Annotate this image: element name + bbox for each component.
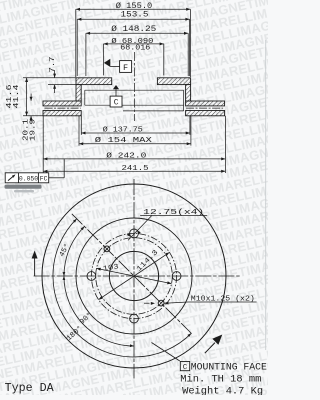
dimension Ø137.75 bbox=[80, 116, 82, 135]
section: left rim friction band (hatched plates + vent) bbox=[43, 101, 81, 106]
datum F flag on bore extension line bbox=[104, 59, 110, 67]
dimension Ø242.0 bbox=[42, 116, 44, 173]
leader from mounting face note bbox=[152, 343, 180, 362]
front view: bolt PCD circle Ø114.3 (dashed) bbox=[91, 233, 176, 318]
section: left hat cone wall bbox=[76, 85, 81, 101]
svg-text:F: F bbox=[123, 63, 128, 73]
front view: 45 degree diagonal centreline bbox=[72, 214, 192, 334]
faint page edge line right bbox=[265, 40, 267, 350]
front view: hat circle Ø155 bbox=[76, 218, 192, 334]
dimension 7.7 hat plate thickness bbox=[23, 77, 76, 79]
svg-text:C: C bbox=[183, 364, 188, 372]
svg-text:68.016: 68.016 bbox=[120, 45, 150, 53]
svg-text:Ø 154 MAX: Ø 154 MAX bbox=[95, 136, 153, 145]
dimension leader M10x1.25 (x2) bbox=[188, 301, 257, 303]
svg-text:Type DA: Type DA bbox=[5, 382, 54, 395]
front view: M10x1.25 service hole #2 bbox=[158, 300, 164, 306]
svg-text:C: C bbox=[114, 99, 119, 108]
svg-text:Weight 4.7 Kg: Weight 4.7 Kg bbox=[182, 386, 263, 395]
dimension 41.6/41.4 overall height bbox=[23, 115, 43, 117]
dimension 114.3 PCD line bbox=[99, 252, 170, 299]
svg-text:153.5: 153.5 bbox=[121, 10, 149, 19]
front view: wheel bolt hole Ø12.75 #1 bbox=[130, 229, 139, 238]
section: hat plate right half (hatched) bbox=[157, 78, 190, 85]
section: right rim friction band (hatched plates + vent) bbox=[186, 101, 225, 106]
dimension 153.5 bbox=[76, 19, 78, 76]
feature control frame total runout 0.050 FC bbox=[49, 177, 64, 179]
svg-text:19.9: 19.9 bbox=[29, 119, 37, 141]
front view: vertical centreline bbox=[133, 179, 135, 379]
front view: horizontal centreline bbox=[34, 275, 241, 277]
section: left vent centerline bbox=[45, 107, 81, 109]
dimension Ø68.090/68.016 bore bbox=[103, 44, 105, 76]
front view: wheel bolt hole Ø12.75 #3 bbox=[172, 272, 181, 281]
note: boxed C MOUNTING FACE bbox=[180, 362, 189, 371]
dimension Ø154 MAX bbox=[78, 116, 80, 146]
svg-text:241.5: 241.5 bbox=[122, 165, 149, 173]
dimension Ø 148.25 bbox=[85, 33, 87, 76]
svg-text:Ø 242.0: Ø 242.0 bbox=[106, 152, 146, 161]
datum C flag on mounting face bbox=[113, 85, 119, 89]
svg-text:41.4: 41.4 bbox=[13, 84, 21, 109]
dimension 20.1/19.9 rim thickness bbox=[30, 94, 32, 101]
angular dimension arc 180 degrees (r=81) bbox=[53, 219, 191, 357]
front view: outer circle Ø242 bbox=[42, 184, 226, 368]
front view: centre bore Ø68 bbox=[109, 251, 158, 300]
section: centre axis line bbox=[134, 52, 136, 121]
svg-text:Ø 137.75: Ø 137.75 bbox=[103, 125, 143, 134]
dimension leader 12.75(x4) bolt holes bbox=[140, 215, 207, 217]
front view: M10 PCD circle Ø103 (dashed) bbox=[96, 238, 173, 315]
svg-text:0.050: 0.050 bbox=[19, 175, 38, 182]
svg-text:MOUNTING FACE: MOUNTING FACE bbox=[191, 362, 267, 373]
section: right hat cone wall bbox=[186, 85, 191, 101]
svg-text:12.75(x4): 12.75(x4) bbox=[143, 209, 204, 217]
section: hat plate left half (hatched) bbox=[76, 78, 112, 85]
front view: wheel bolt hole Ø12.75 #4 bbox=[130, 314, 139, 323]
section: phantom hub outline under hat bbox=[85, 89, 184, 91]
rotation arrow (bottom right, large) bbox=[205, 343, 215, 354]
front view: wheel bolt hole Ø12.75 #2 bbox=[87, 272, 96, 281]
svg-text:7.7: 7.7 bbox=[49, 57, 57, 73]
rotation arrow (left) bbox=[34, 258, 36, 277]
dimension Ø155.0 bbox=[75, 9, 77, 77]
angular dimension arc 45/90 degrees (r=70) bbox=[64, 227, 134, 347]
svg-text:FC: FC bbox=[40, 175, 48, 182]
dimension 103 PCD line bbox=[97, 268, 172, 283]
section: right vent centerline bbox=[186, 107, 223, 109]
svg-text:Min. TH 18 mm: Min. TH 18 mm bbox=[180, 374, 261, 385]
dark smudge artifact bbox=[5, 185, 42, 189]
svg-text:M10x1.25 (x2): M10x1.25 (x2) bbox=[191, 295, 255, 303]
front view: M10x1.25 service hole #1 bbox=[104, 246, 110, 252]
dimension 241.5 bbox=[43, 170, 225, 172]
svg-text:Ø 148.25: Ø 148.25 bbox=[111, 25, 156, 34]
